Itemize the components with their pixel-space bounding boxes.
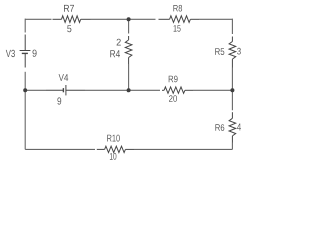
label R9 bbox=[169, 76, 178, 83]
wire bottom left bbox=[25, 148, 95, 150]
label R8 bbox=[173, 5, 182, 12]
resistor R8 bbox=[159, 16, 200, 23]
wire right branch bbox=[231, 19, 233, 150]
R5 value 3 bbox=[237, 48, 241, 55]
battery V3 bbox=[20, 35, 31, 68]
wire middle row center bbox=[85, 89, 160, 91]
label V3 bbox=[6, 50, 15, 57]
node middle-right junction bbox=[230, 88, 234, 92]
wire left branch upper bbox=[24, 19, 26, 33]
V3 value 9 bbox=[33, 50, 37, 57]
node top-middle junction bbox=[127, 17, 131, 21]
wire middle vertical bbox=[128, 19, 130, 90]
label R6 bbox=[215, 124, 224, 131]
wire bottom right bbox=[134, 148, 232, 150]
battery V4 bbox=[46, 85, 85, 95]
R9 value 20 bbox=[169, 95, 177, 102]
resistor R7 bbox=[53, 16, 91, 23]
wire top-left segment bbox=[25, 18, 51, 20]
wire middle row right bbox=[193, 89, 232, 91]
wire left branch lower bbox=[24, 72, 26, 150]
resistor R5 bbox=[229, 37, 236, 68]
resistor R10 bbox=[97, 146, 134, 152]
resistor R4 bbox=[125, 36, 132, 64]
label R7 bbox=[64, 5, 74, 12]
R6 value 4 bbox=[237, 124, 241, 131]
V4 value 9 bbox=[57, 97, 61, 104]
label R10 bbox=[107, 135, 120, 142]
R7 value 5 bbox=[67, 25, 71, 32]
wire middle row left bbox=[25, 89, 46, 91]
wire top-middle segment bbox=[91, 18, 156, 20]
label R4 bbox=[110, 50, 120, 57]
label V4 bbox=[59, 74, 69, 81]
resistor R9 bbox=[162, 87, 193, 93]
wire top-right segment bbox=[199, 18, 232, 20]
label R5 bbox=[215, 48, 224, 55]
node middle-left junction bbox=[23, 88, 27, 92]
R10 value 10 bbox=[110, 153, 117, 160]
R8 value 15 bbox=[174, 25, 181, 32]
node middle-center junction bbox=[127, 88, 131, 92]
R4 value 2 bbox=[117, 39, 121, 46]
resistor R6 bbox=[229, 112, 236, 142]
